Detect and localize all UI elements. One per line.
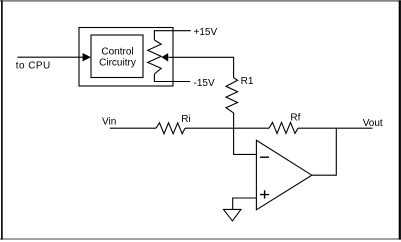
wire R1 to summing node — [233, 113, 235, 128]
op-amp minus sign — [260, 156, 269, 158]
resistor Ri — [156, 123, 185, 134]
op-amp plus sign — [260, 190, 269, 198]
potentiometer body — [148, 40, 162, 74]
wire node A to inverting input — [234, 128, 257, 154]
wire to CPU — [17, 56, 84, 58]
border frame right — [399, 1, 401, 240]
border frame bottom — [0, 238, 401, 240]
svg-text:Ri: Ri — [181, 114, 190, 125]
wire non-inverting input to ground — [233, 198, 257, 209]
border frame left — [1, 1, 3, 240]
border frame top — [0, 0, 401, 2]
svg-text:Rf: Rf — [290, 113, 300, 124]
svg-text:Control: Control — [101, 46, 133, 57]
svg-text:Circuitry: Circuitry — [99, 58, 136, 69]
svg-text:+15V: +15V — [194, 27, 218, 38]
resistor R1 — [226, 78, 238, 113]
arrowhead into control circuitry — [83, 53, 91, 61]
wire -15V — [154, 74, 190, 82]
svg-text:to CPU: to CPU — [16, 61, 51, 72]
svg-text:-15V: -15V — [194, 78, 215, 89]
potentiometer wiper arrowhead — [162, 53, 169, 62]
wire Rf to Vout — [298, 127, 373, 129]
wire wiper to R1 — [168, 57, 233, 77]
svg-text:Vout: Vout — [363, 118, 383, 129]
ground — [224, 209, 242, 221]
control block outer box — [79, 28, 173, 87]
wire +15V — [154, 31, 190, 40]
control circuitry box — [91, 35, 143, 78]
wire op-amp output feedback — [312, 128, 337, 175]
wire Ri to Rf node A — [185, 127, 269, 129]
svg-text:Vin: Vin — [102, 117, 116, 128]
svg-text:R1: R1 — [241, 76, 254, 87]
op-amp U1 — [256, 140, 311, 210]
wire Vin to Ri — [110, 127, 156, 129]
resistor Rf — [269, 122, 298, 133]
